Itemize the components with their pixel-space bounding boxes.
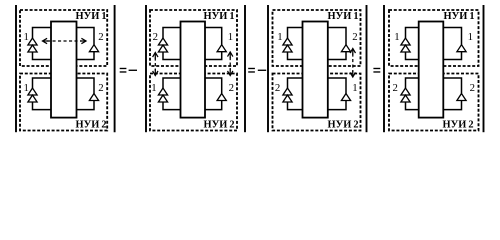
wire U1 left-top, panel 1 — [33, 28, 52, 39]
wire U1 right-bottom, panel 1 — [77, 52, 95, 60]
svg-text:2: 2 — [98, 31, 103, 43]
wire U1 right-bottom, panel 4 — [443, 52, 461, 60]
wire U1 left-top, panel 4 — [406, 28, 419, 39]
svg-text:2: 2 — [352, 31, 357, 43]
receiver triangle U1, panel 3 — [341, 45, 350, 52]
receiver triangle U2, panel 1 — [89, 94, 98, 101]
wire U1 right-bottom, panel 3 — [328, 52, 346, 60]
block U2 dashed box, panel 1 — [20, 74, 107, 131]
wire U2 left-bottom, panel 3 — [288, 102, 303, 110]
svg-text:1: 1 — [23, 82, 28, 94]
wire U2 left-top, panel 4 — [406, 78, 419, 88]
receiver triangle U1, panel 4 — [457, 45, 466, 52]
wire U1 left-bottom, panel 4 — [406, 52, 419, 60]
minus sign, separator 2 — [258, 70, 266, 71]
svg-text:НУИ 1: НУИ 1 — [444, 11, 475, 22]
wire U1 left-bottom, panel 2 — [163, 52, 181, 60]
wire U1 left-top, panel 3 — [288, 28, 303, 39]
svg-text:2: 2 — [229, 82, 234, 94]
equals sign, separator 2 — [248, 68, 255, 69]
equals sign, separator 3 — [373, 68, 380, 69]
wire U2 right-top, panel 2 — [205, 78, 222, 94]
svg-text:НУИ 1: НУИ 1 — [76, 11, 107, 22]
determinant bracket left, panel 3 — [267, 5, 269, 132]
wire U2 left-top, panel 2 — [163, 78, 181, 88]
wire U1 right-top, panel 2 — [205, 28, 222, 45]
wire U2 right-bottom, panel 4 — [443, 101, 461, 110]
generator triangle pair U2, panel 4 — [401, 88, 410, 95]
receiver triangle U1, panel 1 — [89, 45, 98, 52]
svg-text:НУИ 2: НУИ 2 — [76, 120, 107, 131]
generator triangle pair U1, panel 1 — [28, 38, 37, 45]
svg-text:1: 1 — [228, 31, 233, 43]
determinant bracket left, panel 4 — [383, 5, 385, 132]
receiver triangle U2, panel 3 — [341, 94, 350, 101]
determinant bracket right, panel 3 — [366, 5, 368, 132]
wire U2 left-top, panel 1 — [33, 78, 52, 88]
dashed transfer arrow right (vertical, double-headed), panel 2 — [229, 57, 231, 71]
wire U2 right-top, panel 3 — [328, 78, 346, 94]
wire U1 right-bottom, panel 2 — [205, 52, 222, 60]
generator triangle pair U2, panel 1 — [28, 88, 37, 95]
svg-text:1: 1 — [151, 82, 156, 94]
dashed transfer arrow (horizontal, double-headed), panel 1 — [47, 40, 82, 42]
wire U1 right-top, panel 4 — [443, 28, 461, 45]
generator triangle pair U1, panel 2 — [158, 38, 167, 45]
wire U1 right-top, panel 1 — [77, 28, 95, 45]
norator/nullator body rectangle, panel 2 — [181, 22, 206, 118]
svg-text:2: 2 — [275, 82, 280, 94]
wire U2 right-top, panel 1 — [77, 78, 95, 94]
wire U1 left-bottom, panel 3 — [288, 52, 303, 60]
dashed transfer arrow (vertical, double-headed), panel 3 — [352, 54, 354, 73]
svg-text:2: 2 — [153, 31, 158, 43]
block U1 dashed box, panel 2 — [150, 10, 237, 66]
svg-text:НУИ 2: НУИ 2 — [204, 120, 235, 131]
dashed transfer arrow left (vertical, double-headed), panel 2 — [154, 58, 156, 71]
receiver triangle U2, panel 2 — [217, 94, 226, 101]
norator/nullator body rectangle, panel 3 — [303, 22, 328, 118]
wire U1 left-bottom, panel 1 — [33, 52, 52, 60]
determinant bracket right, panel 2 — [244, 5, 246, 132]
svg-text:2: 2 — [392, 82, 397, 94]
block U1 dashed box, panel 4 — [389, 10, 479, 66]
generator triangle pair U1, panel 3 — [283, 38, 292, 45]
generator triangle pair U2, panel 2 — [158, 88, 167, 95]
svg-text:1: 1 — [277, 31, 282, 43]
svg-text:1: 1 — [23, 31, 28, 43]
block U2 dashed box, panel 4 — [389, 74, 479, 131]
block U2 dashed box, panel 3 — [273, 74, 361, 131]
block U1 dashed box, panel 3 — [273, 10, 361, 66]
svg-text:1: 1 — [468, 31, 473, 43]
block U1 dashed box, panel 1 — [20, 10, 107, 66]
norator/nullator body rectangle, panel 4 — [419, 22, 444, 118]
wire U1 right-top, panel 3 — [328, 28, 346, 45]
receiver triangle U1, panel 2 — [217, 45, 226, 52]
wire U2 right-bottom, panel 3 — [328, 101, 346, 110]
receiver triangle U2, panel 4 — [457, 94, 466, 101]
wire U2 left-top, panel 3 — [288, 78, 303, 88]
svg-text:НУИ 1: НУИ 1 — [328, 11, 359, 22]
svg-text:НУИ 1: НУИ 1 — [204, 11, 235, 22]
generator triangle pair U1, panel 4 — [401, 38, 410, 45]
wire U2 left-bottom, panel 2 — [163, 102, 181, 110]
wire U1 left-top, panel 2 — [163, 28, 181, 39]
wire U2 right-top, panel 4 — [443, 78, 461, 94]
svg-text:1: 1 — [394, 31, 399, 43]
block U2 dashed box, panel 2 — [150, 74, 237, 131]
wire U2 right-bottom, panel 2 — [205, 101, 222, 110]
svg-text:2: 2 — [470, 82, 475, 94]
determinant bracket right, panel 1 — [114, 5, 116, 132]
svg-text:2: 2 — [98, 82, 103, 94]
svg-text:НУИ 2: НУИ 2 — [328, 120, 359, 131]
svg-text:НУИ 2: НУИ 2 — [443, 120, 474, 131]
equals sign, separator 1 — [120, 68, 127, 69]
minus sign, separator 1 — [129, 70, 137, 71]
generator triangle pair U2, panel 3 — [283, 88, 292, 95]
determinant bracket left, panel 2 — [145, 5, 147, 132]
wire U2 right-bottom, panel 1 — [77, 101, 95, 110]
wire U2 left-bottom, panel 4 — [406, 102, 419, 110]
determinant bracket right, panel 4 — [483, 5, 485, 132]
wire U2 left-bottom, panel 1 — [33, 102, 52, 110]
determinant bracket left, panel 1 — [15, 5, 17, 132]
norator/nullator body rectangle, panel 1 — [51, 22, 77, 118]
svg-text:1: 1 — [352, 82, 357, 94]
